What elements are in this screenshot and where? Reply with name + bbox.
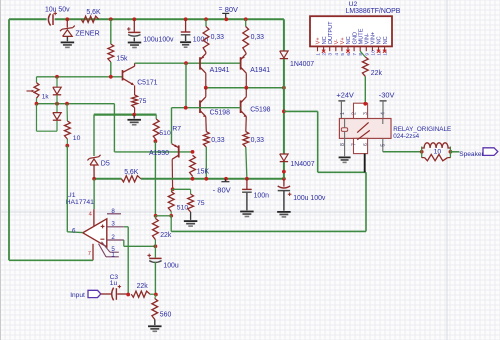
svg-text:0,33: 0,33 [211, 34, 225, 41]
svg-text:RELAY_ORIGINALE: RELAY_ORIGINALE [393, 126, 451, 133]
svg-text:0,33: 0,33 [251, 137, 265, 144]
svg-text:VIN-: VIN- [365, 33, 371, 44]
svg-text:5,6K: 5,6K [124, 169, 139, 176]
svg-text:C5198: C5198 [250, 107, 270, 114]
svg-text:75: 75 [197, 200, 205, 207]
svg-text:4: 4 [381, 112, 387, 115]
svg-text:V-: V- [334, 39, 340, 44]
svg-text:3: 3 [111, 221, 115, 228]
svg-text:22k: 22k [160, 232, 172, 239]
svg-text:1k: 1k [42, 94, 50, 101]
svg-text:6: 6 [346, 53, 352, 56]
svg-text:100u: 100u [163, 263, 178, 270]
svg-text:2: 2 [111, 234, 115, 241]
svg-text:75: 75 [139, 98, 147, 105]
svg-text:3: 3 [328, 53, 334, 56]
svg-text:10: 10 [370, 50, 376, 56]
svg-text:6: 6 [363, 143, 369, 146]
svg-text:1: 1 [111, 252, 115, 259]
svg-text:NC: NC [322, 36, 328, 44]
svg-text:15k: 15k [116, 55, 128, 62]
svg-text:7: 7 [88, 251, 91, 257]
svg-text:024-2zs4: 024-2zs4 [393, 133, 419, 140]
svg-text:0,33: 0,33 [251, 34, 265, 41]
svg-text:1: 1 [316, 53, 322, 56]
svg-text:D5: D5 [101, 161, 110, 168]
svg-text:7: 7 [352, 53, 358, 56]
svg-text:11: 11 [377, 50, 383, 55]
svg-text:15K: 15K [197, 169, 210, 176]
svg-text:NC: NC [346, 36, 352, 44]
svg-text:- 80V: - 80V [213, 185, 232, 194]
svg-text:2: 2 [322, 53, 328, 56]
svg-text:8: 8 [111, 208, 115, 215]
svg-text:A1930: A1930 [149, 150, 169, 157]
svg-text:22k: 22k [137, 283, 149, 290]
svg-text:22k: 22k [371, 70, 383, 77]
svg-text:V+: V+ [340, 37, 346, 44]
svg-text:5: 5 [340, 53, 346, 56]
svg-text:4: 4 [334, 53, 340, 56]
svg-text:C5171: C5171 [137, 80, 157, 87]
svg-text:NC: NC [383, 36, 389, 44]
svg-text:10: 10 [434, 148, 442, 155]
svg-text:1N4007: 1N4007 [290, 161, 314, 168]
svg-text:ZENER: ZENER [75, 28, 99, 37]
svg-text:80V: 80V [225, 5, 238, 14]
svg-text:560: 560 [160, 312, 172, 319]
svg-text:1: 1 [340, 112, 346, 115]
svg-text:0,33: 0,33 [211, 137, 225, 144]
svg-text:5: 5 [381, 144, 387, 147]
svg-text:510: 510 [159, 130, 171, 137]
svg-text:5,6K: 5,6K [86, 9, 101, 16]
svg-text:6: 6 [72, 227, 76, 234]
svg-text:Speaker: Speaker [459, 151, 484, 158]
svg-text:7: 7 [351, 143, 357, 146]
svg-text:R7: R7 [172, 126, 181, 133]
svg-text:C5198: C5198 [210, 109, 230, 116]
svg-text:1u: 1u [110, 280, 118, 287]
svg-text:100n: 100n [254, 192, 269, 199]
svg-text:LM3886TF/NOPB: LM3886TF/NOPB [346, 8, 401, 15]
svg-text:2: 2 [351, 112, 357, 115]
svg-text:+24V: +24V [336, 90, 354, 99]
svg-text:10: 10 [73, 135, 81, 142]
svg-text:10u 50v: 10u 50v [45, 7, 70, 14]
svg-text:OUTPUT: OUTPUT [328, 21, 334, 45]
svg-text:9: 9 [364, 53, 370, 56]
svg-text:VIN+: VIN+ [371, 32, 377, 45]
svg-text:A1941: A1941 [250, 67, 270, 74]
svg-text:100u100v: 100u100v [143, 37, 174, 44]
svg-text:-30V: -30V [379, 90, 395, 99]
svg-text:MUTE: MUTE [358, 28, 364, 44]
svg-text:V+: V+ [316, 37, 322, 44]
svg-text:3: 3 [363, 112, 369, 115]
svg-text:=: = [219, 5, 223, 12]
svg-text:100u 100v: 100u 100v [293, 195, 326, 202]
svg-text:1N4007: 1N4007 [290, 61, 314, 68]
svg-text:GND: GND [352, 32, 358, 44]
svg-text:NC: NC [377, 36, 383, 44]
svg-text:8: 8 [340, 143, 346, 146]
svg-text:A1941: A1941 [210, 67, 230, 74]
svg-text:Input: Input [70, 292, 85, 299]
svg-text:HA17741: HA17741 [66, 199, 95, 206]
svg-text:510: 510 [177, 205, 189, 212]
